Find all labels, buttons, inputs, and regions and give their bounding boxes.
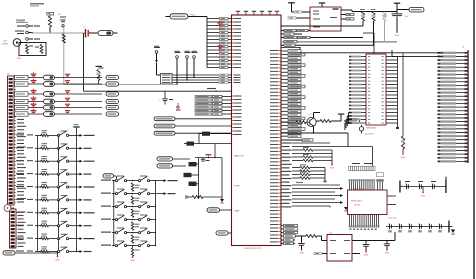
capacitor CE2 red: [31, 80, 37, 81]
ladder pin row 11: [443, 88, 468, 90]
wire U1 to U2 row2: [281, 33, 302, 35]
U2 right pin wire b: [341, 14, 346, 16]
regulator U4 body: [327, 235, 352, 262]
ladder pin row 20: [443, 121, 468, 123]
supply 5V cap node: [394, 3, 400, 4]
ladder pin row 4: [443, 63, 468, 65]
wire U1 to ladder feed: [281, 47, 300, 49]
rectifier box outline: [19, 43, 46, 56]
ladder pin row 2: [443, 55, 468, 57]
LED D13: [44, 99, 55, 104]
keypad row K2 switch SW2: [16, 147, 24, 148]
X1 bottom pads: [350, 229, 352, 230]
U1 right pin wire row 21: [281, 121, 283, 123]
resistor RM3 vertical: [131, 209, 133, 218]
fan wire rung 7: [207, 39, 220, 41]
U1 right pin wire row 25: [281, 135, 283, 137]
resistor R1 pull-up: [47, 12, 54, 15]
keypad column link 9: [58, 239, 60, 252]
net pill row 3: [154, 131, 175, 135]
U1 right pin wire row 17: [281, 107, 283, 109]
fan wire rung 14: [207, 63, 220, 65]
diode arrow D3: [292, 195, 340, 197]
U1 right pin label mid 6: [281, 160, 283, 162]
wire U4 pin2: [281, 239, 295, 241]
keypad row K4 switch SW4: [16, 173, 24, 174]
connector pin J1-2: [26, 31, 29, 34]
ladder pin row 1: [443, 52, 468, 54]
ladder pin row 26: [443, 142, 468, 144]
capacitor CE1 red: [31, 74, 37, 75]
U3 left pin 19: [361, 119, 366, 121]
keypad row K6 switch SW6: [16, 199, 24, 200]
net pill M-top2: [157, 164, 173, 168]
X1 right stub a: [387, 195, 396, 197]
keypad column link 8: [58, 226, 60, 239]
keypad2 row M1: [101, 180, 111, 181]
resistor RL4: [14, 101, 15, 103]
keypad row K7 switch SW7: [16, 212, 24, 213]
ladder pin row 22: [443, 128, 468, 130]
IC U3 body: [366, 54, 386, 125]
U1 right pin wire row 10: [281, 82, 283, 84]
wire emitter row: [281, 132, 348, 134]
svg-text:TAMP_INT: TAMP_INT: [234, 155, 245, 158]
wire 5V node top: [352, 11, 397, 13]
capacitor C9: [201, 158, 206, 161]
regulator VR1: [40, 45, 43, 54]
capacitor CC3: [65, 90, 70, 91]
wire row M2 arrow: [156, 193, 164, 195]
resistor R9: [306, 235, 317, 238]
keypad row K9 switch SW9: [16, 238, 24, 239]
wire U4 out top: [352, 240, 395, 242]
ladder pin row 29: [443, 153, 468, 155]
U3 interior pin numbers: [368, 55, 370, 58]
X1 bottom pin comb: [349, 215, 351, 226]
U3 right pin 7: [386, 77, 398, 79]
U3 left pin 2: [361, 59, 366, 61]
U3 right pin 11: [386, 91, 398, 93]
U3 left pin 6: [361, 73, 366, 75]
connector pin J1-1: [26, 25, 29, 28]
U3 right pin 16: [386, 108, 398, 110]
U3 right pin 19: [386, 119, 398, 121]
capacitor C17: [164, 91, 166, 98]
keypad row K8 switch SW8: [16, 225, 24, 226]
U1 right pin wire row 22: [281, 125, 283, 127]
connector J5 strip: [10, 209, 17, 248]
resistor R13 smd: [189, 162, 197, 166]
U3 right pin 15: [386, 105, 398, 107]
U3 left pin 1: [361, 56, 366, 58]
X1 top label boxes: [349, 166, 351, 171]
keypad column link 2: [58, 148, 60, 161]
U1 right pin wire row 9: [281, 78, 283, 80]
U1 right pin wire row 19: [281, 114, 283, 116]
resistor R3: [360, 8, 365, 11]
U1 right pin wire low 2: [281, 228, 284, 230]
capacitor C6: [301, 236, 303, 243]
gray bus horizontal: [64, 83, 177, 85]
op MCU U1 body: [232, 15, 282, 246]
ladder spine: [467, 50, 468, 163]
transistor Q1: [307, 117, 316, 126]
U3 right pin 6: [386, 73, 398, 75]
wire C2 to fuse: [89, 32, 98, 34]
svg-text:DC/9V: DC/9V: [2, 43, 9, 45]
wire main 5V rail: [31, 32, 84, 34]
keypad row K5 switch SW5: [16, 186, 24, 187]
ladder pin row 8: [443, 77, 468, 79]
U3 left pin 17: [361, 112, 366, 114]
capacitor CC4: [65, 98, 70, 99]
wire jack to rectifier box: [21, 42, 27, 44]
resistor RM6 to ground: [131, 248, 133, 257]
connector pin J1-3: [26, 38, 29, 41]
U3 right pin 20: [386, 122, 398, 124]
connector circle CN1: [4, 205, 11, 212]
U3 right pin 13: [386, 98, 398, 100]
fan ladder spine: [206, 17, 208, 68]
U1 right pin label mid 11: [281, 178, 283, 180]
ladder pin row 3: [443, 59, 468, 61]
svg-text:POWER: POWER: [16, 20, 25, 23]
wire row 236 long: [281, 235, 302, 237]
wire U4 out low: [352, 253, 360, 255]
wire U1 to U2 row1: [281, 30, 310, 32]
wire into U3 top: [373, 33, 375, 54]
fan wire rung 6: [207, 35, 220, 37]
U3 right pin 18: [386, 115, 398, 117]
resistor R5 gray: [383, 12, 386, 22]
ladder pin row 19: [443, 117, 468, 119]
U1 right pin wire row 5: [281, 64, 283, 66]
U1 top power stubs: [237, 12, 239, 15]
resistor R15 smd: [189, 182, 197, 186]
ground arrow cluster: [220, 199, 224, 202]
U1 right pin wire row 6: [281, 68, 283, 70]
U3 right pin 12: [386, 94, 398, 96]
U3 left pin 20: [361, 122, 366, 124]
wire row M1 arrow: [156, 180, 164, 182]
cap bank row1 end: [445, 180, 446, 193]
supply 5V0 mark: [338, 114, 344, 115]
U3 left pin 4: [361, 66, 366, 68]
U1 right pin label mid 19: [281, 206, 283, 208]
cap bank row1 wire: [400, 186, 446, 188]
U1 right pin wire row 7: [281, 71, 283, 73]
barrel jack J2: [13, 39, 21, 47]
gray rail vertical from C1: [63, 27, 65, 84]
U1 right pin label mid 12: [281, 181, 283, 183]
wire into TAMP row: [210, 133, 232, 135]
matrix2 bus left: [113, 181, 115, 246]
svg-text:GND: GND: [330, 167, 335, 169]
svg-text:GND: GND: [299, 253, 304, 255]
wire row c: [292, 153, 332, 155]
fan wire rung 10: [207, 49, 220, 51]
resistor RB3: [292, 174, 300, 176]
U1 right pin wire row 11: [281, 86, 283, 88]
cap bank row2 end: [448, 221, 449, 233]
resistor R4: [371, 8, 376, 11]
U3 left pin 7: [361, 77, 366, 79]
resistor R12 smd: [187, 142, 195, 146]
svg-text:GND: GND: [421, 195, 426, 197]
diode D1: [26, 45, 29, 54]
capacitor CC2: [65, 80, 70, 81]
keypad row K1 switch SW1: [16, 134, 24, 135]
connector P1 pill: [409, 7, 424, 12]
resistor R14 smd: [184, 173, 192, 177]
supply 5V matrix bus: [73, 126, 80, 127]
test point TP3: [186, 56, 189, 59]
ladder pin row 15: [443, 102, 468, 104]
net label row 4: [195, 106, 212, 108]
ladder pin row 30: [443, 157, 468, 159]
svg-text:DIP-28: DIP-28: [354, 205, 361, 207]
capacitor C8: [386, 241, 388, 244]
ladder pin row 21: [443, 124, 468, 126]
LED D14: [44, 105, 55, 110]
capacitor CC1: [65, 74, 70, 75]
net pill NL2: [106, 82, 119, 86]
keypad column link 7: [58, 213, 60, 226]
svg-text:GND: GND: [401, 157, 406, 159]
wire row e: [292, 191, 335, 193]
cap bank row2 wire: [386, 226, 449, 228]
keypad2 row M6: [101, 245, 111, 246]
U1 right pin wire row 14: [281, 96, 283, 98]
U1 right pin label mid 15: [281, 192, 283, 194]
resistor RL6: [14, 113, 15, 115]
fan wire rung 11: [207, 53, 220, 55]
test point TP5: [177, 103, 178, 104]
J4 pin net labels: [17, 116, 26, 117]
wire R4 drop: [373, 21, 375, 45]
U1 right pin label mid 9: [281, 170, 283, 172]
wire R5 drop gray: [384, 21, 386, 42]
capacitor C7: [365, 241, 367, 244]
U1 right pin label mid 13: [281, 185, 283, 187]
U3 left pin 8: [361, 80, 366, 82]
connector pill P2: [207, 208, 220, 212]
U3 left pin 5: [361, 70, 366, 72]
capacitor CC5: [65, 104, 70, 105]
U1 right pin label mid 1: [281, 142, 283, 144]
U2 top supply: [321, 4, 323, 7]
ladder pin row 14: [443, 99, 468, 101]
U1 right pin label mid 17: [281, 199, 283, 201]
net pill NL3: [106, 92, 119, 96]
U3 left pin 11: [361, 91, 366, 93]
ladder pin row 25: [443, 139, 468, 141]
U1 right pin label mid 18: [281, 202, 283, 204]
net pill M-top1: [157, 157, 173, 161]
svg-text:POER: POER: [234, 186, 240, 188]
ladder pin row 12: [443, 92, 468, 94]
fan wire rung 15: [207, 67, 220, 69]
U1 interior left pin names: [234, 18, 242, 19]
connector pill GND lug: [3, 251, 15, 255]
fan wire rung 1: [207, 18, 220, 20]
U1 interior right pin names: [270, 50, 279, 51]
X1 top pin comb: [349, 182, 351, 190]
supply mark 5V: [205, 154, 211, 155]
net pill M-left: [103, 174, 114, 178]
net label row 5: [195, 109, 212, 111]
U3 right pin 8: [386, 80, 398, 82]
U2 right pin wire c: [341, 18, 346, 20]
test point TP4: [193, 56, 196, 59]
U4 left pin low: [322, 253, 327, 255]
capacitor CE5 red: [31, 104, 37, 105]
fan wire rung 12: [207, 56, 220, 58]
J5 pin net labels: [18, 212, 26, 213]
svg-text:GND: GND: [17, 58, 22, 60]
wire row g: [292, 205, 330, 207]
test point TP2: [176, 56, 179, 59]
X1 right stub b: [387, 204, 396, 206]
matrix2 bus right: [155, 181, 157, 246]
fuse F1: [98, 31, 113, 36]
resistor RL5: [14, 107, 15, 109]
U1 right pin label mid 4: [281, 153, 283, 155]
matrix2 ground: [132, 256, 134, 258]
U3 right pin 4: [386, 66, 398, 68]
wire reset row: [281, 139, 302, 141]
resistor RB4: [292, 177, 300, 179]
wire into row 1436: [194, 143, 232, 145]
net pill NL6: [106, 112, 119, 116]
diode arrow D2: [292, 188, 340, 190]
U2 left pin 3: [296, 17, 310, 19]
U3 right pin 9: [386, 84, 398, 86]
svg-text:STM32F107VCT6: STM32F107VCT6: [244, 248, 262, 250]
wire ladder feed 1: [300, 52, 443, 54]
U3 left pin 12: [361, 94, 366, 96]
wire RP1 out 2: [172, 77, 219, 79]
U3 right bus: [397, 57, 399, 129]
keypad2 row M3: [101, 206, 111, 207]
U1 right pin wire row 8: [281, 75, 283, 77]
ladder pin row 28: [443, 150, 468, 152]
U3 right pin 5: [386, 70, 398, 72]
capacitor CE3 red: [31, 90, 37, 91]
fan wire rung 5: [207, 32, 220, 34]
U3 right pin 3: [386, 63, 398, 65]
U1 right pin wire row 4: [281, 61, 283, 63]
net label row 1: [195, 95, 212, 97]
resistor network RP1: [161, 74, 173, 85]
wire RP1 out 4: [172, 82, 219, 84]
ladder pin row 27: [443, 146, 468, 148]
vertical wire x403: [402, 53, 404, 136]
svg-text:74HC595D: 74HC595D: [366, 128, 376, 130]
wire base row: [281, 121, 296, 123]
X1 top aux comb: [377, 182, 379, 190]
svg-text:GND: GND: [130, 260, 135, 262]
wire row b to socket labels: [292, 146, 373, 148]
U1 right pin label mid 8: [281, 167, 283, 169]
matrix bus left: [37, 135, 39, 251]
net pill row 2: [154, 124, 175, 128]
U1 right pin label mid 5: [281, 156, 283, 158]
wire RP1 out 1: [172, 74, 219, 76]
U1 right pin wire row 3: [281, 57, 283, 59]
LED D10: [44, 75, 55, 80]
wire mid horizontal: [195, 157, 222, 159]
ladder pin row 10: [443, 84, 468, 86]
bus vertical B: [324, 168, 326, 181]
ladder pin row 16: [443, 106, 468, 108]
capacitor C5: [392, 12, 403, 15]
U3 left pin 13: [361, 98, 366, 100]
U1 right pin label mid 7: [281, 163, 283, 165]
LED D15: [44, 112, 55, 117]
wire U4 pin3: [281, 242, 295, 244]
svg-text:C10-C16: C10-C16: [388, 218, 397, 220]
keypad2 row M4: [101, 219, 111, 220]
vertical wire to black bus: [83, 33, 85, 91]
keypad2 row M2: [101, 193, 111, 194]
U1 right pin wire row 18: [281, 110, 283, 112]
wire cap to pill: [397, 9, 409, 11]
U3 left pin 10: [361, 87, 366, 89]
ladder pin row 18: [443, 113, 468, 115]
fan wire rung 4: [207, 28, 220, 30]
bus wire b1: [281, 37, 363, 39]
fan wire rung 2: [207, 21, 220, 23]
U3 left pin 9: [361, 84, 366, 86]
connector J4 pin stubs: [14, 78, 16, 80]
bus wire gray thick: [281, 41, 397, 43]
U3 left pin 3: [361, 63, 366, 65]
ground at R17: [402, 153, 404, 155]
keypad column link 5: [58, 187, 60, 200]
U1 right pin label mid 3: [281, 149, 283, 151]
svg-text:GND: GND: [55, 259, 60, 261]
U3 left pin 14: [361, 101, 366, 103]
U3 left pin 16: [361, 108, 366, 110]
fan wire rung 3: [207, 25, 220, 27]
bus wire b2: [281, 44, 374, 46]
bus vertical A: [331, 150, 333, 164]
U1 right pin label mid 16: [281, 195, 283, 197]
schematic frame right border: [473, 0, 474, 279]
resistor RM5 vertical: [131, 235, 133, 244]
U3 right pin 2: [386, 59, 398, 61]
U3 left pin 15: [361, 105, 366, 107]
keypad row K3 switch SW3: [16, 160, 24, 161]
resistor RL1: [14, 77, 15, 79]
U1 right pin wire row 15: [281, 100, 283, 102]
U3 right pin 14: [386, 101, 398, 103]
ladder pin row 24: [443, 135, 468, 137]
net pill NL1: [106, 75, 119, 79]
title block text: [30, 3, 44, 4]
resistor R10: [96, 66, 102, 67]
U1 right pin label mid 2: [281, 146, 283, 148]
svg-text:GND: GND: [364, 255, 369, 257]
ground at C5: [396, 31, 398, 33]
ground at rectifier: [18, 55, 20, 57]
test point TP1: [155, 51, 158, 54]
wire row a: [292, 142, 330, 144]
U1 right pin wire low 1: [281, 225, 284, 227]
keypad column link 3: [58, 161, 60, 174]
